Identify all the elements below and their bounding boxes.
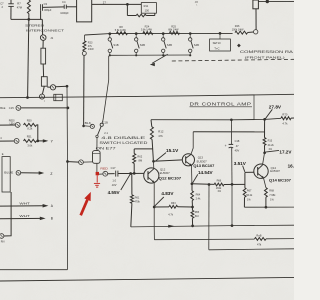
svg-text:C17: C17	[111, 166, 116, 170]
svg-text:44.2k: 44.2k	[268, 144, 275, 147]
svg-text:R13: R13	[268, 140, 273, 143]
wire feedback line y226	[131, 225, 294, 227]
svg-text:R67: R67	[247, 190, 252, 193]
resistor R13 44.2k 1%	[263, 119, 274, 152]
svg-text:Z: Z	[50, 172, 52, 176]
svg-text:40V: 40V	[235, 148, 240, 152]
main supply wire (long horizontal)	[0, 94, 294, 97]
wire emitter bus y207	[244, 206, 294, 208]
label Z	[50, 172, 52, 176]
svg-text:4.83V: 4.83V	[161, 191, 174, 196]
svg-text:R65: R65	[195, 211, 200, 214]
svg-text:4.7k: 4.7k	[282, 122, 288, 126]
svg-text:47k: 47k	[158, 134, 163, 138]
label DR CONTROL AMP	[190, 102, 253, 108]
wire Q13 collector rail y132	[193, 131, 264, 133]
wire Q12 emitter column	[153, 183, 155, 240]
svg-text:15.1V: 15.1V	[166, 148, 179, 153]
wire top-right to edge	[258, 0, 294, 2]
junction dot base node 2	[133, 172, 136, 175]
switch S-C16 disable	[98, 123, 104, 135]
mechanical link arrow	[150, 54, 168, 66]
wire C17 node	[99, 173, 103, 175]
terminal circle R26	[254, 30, 258, 34]
label 16.	[288, 164, 294, 169]
component box R11 100	[141, 3, 156, 14]
svg-text:3.51V: 3.51V	[234, 161, 247, 166]
svg-text:BLK: BLK	[85, 121, 92, 125]
svg-text:WHT: WHT	[19, 202, 30, 206]
component rect2 left column	[41, 77, 47, 94]
label RED/GRN	[9, 119, 15, 125]
svg-text:47M: 47M	[17, 5, 23, 9]
svg-text:S3B: S3B	[167, 43, 172, 47]
junction dot C15 row	[67, 107, 70, 110]
label 15.1V	[156, 148, 180, 161]
svg-text:BLUE: BLUE	[4, 172, 13, 175]
label Q12 EU5307	[160, 167, 171, 175]
svg-text:2.4k: 2.4k	[196, 198, 201, 201]
junction dot Q12 collector node	[152, 160, 155, 163]
svg-text:S2B: S2B	[140, 43, 145, 47]
junction dot base node 1	[129, 172, 132, 175]
junction dot switch S2B top	[135, 32, 138, 35]
jack circle B on main line	[40, 94, 46, 103]
svg-text:C7: C7	[0, 2, 4, 6]
junction dot rail/R13	[263, 118, 266, 121]
junction dot bus/R18	[265, 206, 268, 209]
svg-text:(FRONT PANEL): (FRONT PANEL)	[245, 55, 285, 59]
label 17.2V	[265, 149, 292, 154]
wire to Y arrow	[38, 139, 49, 142]
svg-text:14.54V: 14.54V	[198, 170, 213, 175]
junction dot C18 minus	[231, 183, 234, 186]
wire BLK to jack	[85, 125, 90, 127]
transistor Q13	[182, 154, 194, 166]
svg-text:Q12 BC107: Q12 BC107	[159, 177, 182, 181]
junction dot Q12 emitter node	[153, 206, 156, 209]
switch S4B	[189, 33, 200, 56]
potentiometer R70 4.7k	[281, 113, 294, 126]
label 27.8V	[265, 105, 282, 119]
resistor R62 8M	[133, 149, 143, 174]
label WHT row B	[19, 214, 30, 218]
terminal circle R23	[82, 51, 86, 55]
resistor R18 7.68k 1%	[264, 178, 277, 207]
svg-text:C18: C18	[235, 139, 240, 143]
svg-text:8M: 8M	[139, 158, 143, 162]
junction dot 17.2V node	[263, 151, 266, 154]
svg-text:EU5307: EU5307	[197, 159, 208, 163]
jack C15 row	[16, 106, 21, 111]
wire capsule down to test point	[96, 163, 98, 172]
wire drop at x209	[208, 185, 210, 250]
junction dot switch S1B top	[108, 32, 111, 35]
long bottom wire	[0, 277, 294, 281]
junction dot blue-row branch	[66, 160, 69, 163]
resistor R24 5.6k 1/4W	[141, 25, 153, 35]
connector box E	[2, 157, 10, 192]
svg-text:C3: C3	[44, 2, 48, 6]
label 3.51V	[234, 161, 247, 172]
svg-text:4.55V: 4.55V	[108, 190, 121, 195]
wire switch vertical from bus	[102, 56, 109, 123]
junction dot row3	[36, 140, 39, 143]
wire C18 minus down	[231, 184, 233, 225]
junction dot switch S4B top	[189, 32, 192, 35]
svg-text:C4: C4	[62, 0, 66, 4]
jack circle A	[47, 85, 55, 90]
svg-text:4.8 DISABLE: 4.8 DISABLE	[101, 136, 145, 140]
label Q13 EU5307	[197, 156, 208, 164]
resistor R17 56.2k 1%	[243, 188, 253, 208]
component box C on main line	[54, 94, 63, 100]
resistor R7 47M	[17, 0, 31, 97]
svg-text:EU5307: EU5307	[270, 169, 280, 173]
svg-text:Q13 BC107: Q13 BC107	[193, 164, 214, 168]
junction dot BLK	[82, 125, 85, 128]
svg-text:R70: R70	[282, 113, 287, 117]
svg-text:5.6k 1/4W: 5.6k 1/4W	[115, 29, 127, 32]
wire to Z arrow	[21, 171, 45, 174]
red ground stub	[96, 175, 98, 182]
wire base node down	[244, 172, 246, 187]
svg-text:17.2V: 17.2V	[279, 149, 292, 154]
label C16	[103, 121, 108, 125]
wire circle A to vertical	[56, 85, 67, 88]
svg-text:10V: 10V	[112, 183, 117, 187]
junction dot main line x27	[26, 96, 29, 99]
wire Q14 base	[245, 171, 254, 173]
svg-text:1000pF: 1000pF	[60, 12, 69, 15]
svg-text:4B: 4B	[195, 0, 198, 4]
junction dot switch S3B top	[162, 32, 165, 35]
svg-text:8.2k: 8.2k	[27, 126, 33, 130]
wire R23 down to BLK switch	[83, 56, 85, 126]
junction dot line226/R65	[191, 225, 194, 228]
capacitor C2	[0, 0, 14, 19]
svg-text:.068μF: .068μF	[44, 9, 52, 12]
svg-text:RN: RN	[1, 241, 5, 244]
diamond marker	[237, 44, 241, 48]
jack left of tilted rect	[79, 160, 84, 165]
svg-text:BLE: BLE	[0, 106, 5, 110]
wire node top-left	[11, 18, 42, 20]
wire 27.8V rail y120	[151, 118, 281, 120]
jack J1	[40, 19, 53, 48]
arrow on line226	[168, 225, 175, 228]
junction dot R26 line	[219, 32, 222, 35]
component capsule (relay contact)	[93, 135, 101, 163]
svg-text:4.7k: 4.7k	[168, 213, 173, 216]
jack GRN bottom-left	[0, 234, 5, 244]
svg-text:B: B	[51, 217, 53, 221]
wire Q13 collector up	[191, 132, 193, 155]
svg-text:7.68k: 7.68k	[269, 194, 276, 197]
wire WHT B	[0, 217, 46, 221]
label WHT row A	[19, 202, 30, 206]
resistor R66 182k 1%	[214, 179, 245, 193]
svg-text:R66: R66	[217, 179, 222, 182]
junction dot wire27	[126, 3, 129, 6]
resistor R8 5.6k 1/4W	[115, 25, 128, 35]
box bottom edge	[0, 269, 67, 271]
transistor Q14	[254, 153, 268, 178]
svg-text:47k: 47k	[257, 242, 262, 246]
label YEL row3	[0, 137, 2, 140]
svg-text:68k 1/4W: 68k 1/4W	[168, 29, 179, 32]
svg-text:5.6k 1/4W: 5.6k 1/4W	[141, 29, 153, 32]
fuse component below J1	[41, 48, 46, 76]
svg-text:2.1: 2.1	[104, 131, 108, 135]
amplifier block box top-left	[77, 0, 92, 22]
component rect top-right	[253, 0, 259, 9]
svg-text:COMPRESSION RA: COMPRESSION RA	[240, 50, 294, 54]
svg-text:1/4W: 1/4W	[88, 48, 94, 51]
label 4.55V	[108, 174, 131, 195]
label Q14 EU5307	[270, 166, 280, 173]
resistor R11 parallel loop	[127, 4, 154, 16]
junction dot A-wire	[66, 85, 69, 88]
wire left vertical bus x67	[66, 86, 69, 270]
resistor R50 8.2k	[24, 119, 37, 131]
svg-text:R62: R62	[137, 155, 142, 159]
wire R50 corner down	[37, 125, 38, 141]
label BLK	[85, 121, 92, 125]
jack C16 switch	[90, 124, 94, 128]
capacitor C3 .068uF	[41, 2, 65, 19]
label A	[51, 204, 54, 208]
resistor R26 100k 1/4W	[232, 24, 254, 34]
svg-text:J1: J1	[50, 36, 53, 40]
svg-text:100: 100	[145, 8, 150, 12]
svg-text:R63: R63	[171, 202, 176, 205]
label 4.83V	[155, 191, 175, 206]
wire emitter row y184	[192, 183, 214, 186]
note 4.8 disable switch	[96, 136, 149, 151]
label 21	[104, 131, 108, 135]
svg-text:56.2k: 56.2k	[246, 194, 253, 197]
label BLK C15	[0, 106, 14, 110]
svg-text:E.: E.	[2, 153, 5, 156]
svg-text:R11: R11	[144, 4, 149, 8]
capacitor C18 47/40V	[225, 120, 240, 185]
svg-text:SWITCH LOCATED: SWITCH LOCATED	[99, 141, 148, 145]
svg-text:470k: 470k	[134, 200, 140, 204]
junction dot R7/wire	[27, 18, 30, 21]
resistor R61 470k	[130, 174, 140, 227]
wire R62 top to collector column	[134, 148, 153, 150]
label Y	[51, 139, 54, 143]
svg-text:ON E77: ON E77	[96, 147, 116, 151]
jack C17	[103, 171, 108, 176]
resistor R63 4.7k	[154, 202, 192, 216]
box T+C	[210, 33, 231, 51]
switch bus line	[85, 33, 233, 35]
wire Q13 emitter down	[191, 166, 193, 184]
label E.	[2, 153, 5, 156]
svg-text:S4B: S4B	[194, 43, 199, 47]
label Q13 BC107	[193, 164, 214, 168]
svg-text:1.0: 1.0	[112, 178, 116, 182]
wire blue-branch to tilted rect	[68, 161, 78, 164]
svg-text:R64: R64	[196, 194, 201, 197]
junction dot line226/C18col	[231, 224, 234, 227]
svg-text:R61: R61	[135, 196, 140, 200]
wire supply drop x254	[253, 95, 255, 120]
stray label AB	[195, 0, 198, 7]
red annotation arrow	[81, 192, 91, 215]
capacitor C17 1.0/10V	[108, 166, 144, 187]
label Q14 BC107	[269, 178, 291, 182]
wire WHT A	[0, 204, 48, 208]
resistor R69 47k	[255, 233, 295, 246]
resistor R12 47k	[150, 120, 163, 162]
wire 27 to R11	[92, 1, 142, 5]
transistor Q12	[144, 161, 159, 183]
svg-text:C1B: C1B	[103, 121, 108, 125]
junction dot top-right	[266, 0, 269, 3]
wire GRN up to box E	[4, 192, 11, 236]
resistor R23 47k 1/4W	[83, 35, 94, 51]
red test point square	[96, 172, 99, 175]
svg-text:WHT: WHT	[19, 214, 30, 218]
capacitor C4 1000pF	[60, 0, 76, 15]
svg-text:RиB: RиB	[256, 233, 261, 237]
mechanical dashed link	[172, 59, 294, 61]
wire jack to capsule	[83, 161, 92, 163]
svg-text:S1B: S1B	[113, 43, 118, 47]
label BLUE	[4, 172, 13, 175]
svg-text:R50: R50	[27, 119, 32, 123]
resistor R65 810	[191, 207, 200, 226]
switch bottom bus	[110, 54, 190, 56]
label STEREO INTERCONNECT	[25, 23, 64, 32]
svg-text:16.: 16.	[288, 164, 294, 169]
label COMPRESSION RATIO	[240, 50, 295, 59]
svg-text:T+C: T+C	[214, 46, 219, 50]
label B	[51, 217, 53, 221]
svg-text:SET10: SET10	[213, 41, 221, 45]
junction dot R64 bottom	[191, 206, 194, 209]
label RED	[100, 166, 108, 170]
wire line3 y250	[209, 249, 294, 250]
junction dot rail/C18	[230, 118, 233, 121]
svg-text:27: 27	[103, 1, 107, 5]
wire Q12 collector to Q13 base	[154, 160, 183, 161]
svg-text:Q14 BC107: Q14 BC107	[269, 178, 291, 182]
svg-text:R68: R68	[269, 190, 274, 193]
junction dot drop209	[208, 183, 211, 186]
svg-text:100k 1/4W: 100k 1/4W	[232, 28, 244, 31]
svg-text:RED: RED	[100, 166, 108, 170]
jack R50 row	[0, 123, 20, 128]
resistor R25 68k 1/4W	[168, 24, 179, 34]
label 14.54V	[193, 170, 214, 183]
svg-text:+: +	[225, 144, 227, 148]
wire up to top-right component	[255, 9, 257, 30]
wire line2 y239 from Q12 emitter	[154, 238, 254, 241]
svg-text:C15: C15	[9, 106, 14, 110]
svg-text:R7: R7	[17, 2, 21, 6]
switch S3B	[162, 34, 173, 57]
svg-text:3.6k: 3.6k	[27, 143, 33, 147]
switch S2B	[135, 34, 146, 57]
svg-text:R12: R12	[158, 129, 164, 133]
svg-text:EU5307: EU5307	[160, 171, 171, 175]
label Q12 BC107	[159, 177, 182, 181]
resistor R51 3.6k	[24, 135, 37, 148]
svg-text:27.8V: 27.8V	[269, 105, 282, 110]
svg-text:R51: R51	[27, 135, 32, 139]
resistor R64 2.4k	[191, 184, 201, 207]
switch S1B	[108, 34, 119, 57]
jack R51 row	[0, 139, 19, 144]
jack BLUE row	[16, 171, 21, 176]
wire C15 row	[21, 107, 67, 109]
red ground symbol	[94, 183, 100, 187]
junction dot Q13 emitter node	[191, 182, 194, 185]
svg-text:INTERCONNECT: INTERCONNECT	[26, 28, 64, 32]
svg-text:810: 810	[195, 215, 200, 218]
